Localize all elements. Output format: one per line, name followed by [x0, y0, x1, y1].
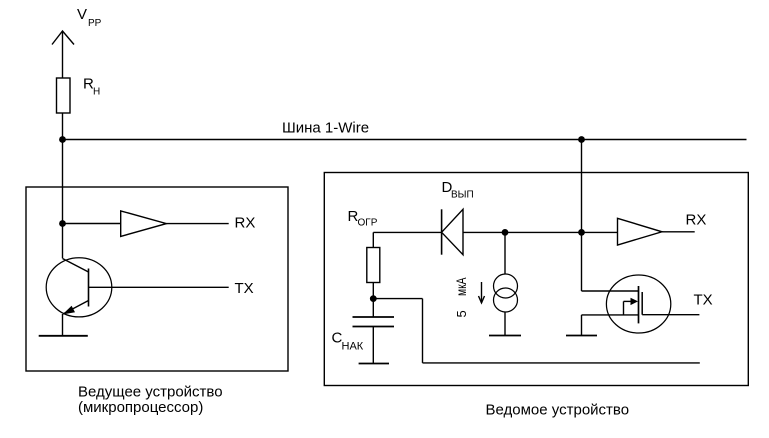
capacitor C_NAK top plate [353, 316, 395, 318]
mosfet M1 channel bar [638, 286, 640, 323]
label R_OGR [348, 208, 378, 229]
svg-text:Ведомое устройство: Ведомое устройство [486, 402, 630, 419]
wire current source to ground [504, 312, 506, 336]
label C_NAK [332, 330, 364, 353]
buffer U1 master RX [121, 211, 167, 237]
wire bus drop into slave [581, 140, 583, 233]
power arrow to VPP [52, 31, 74, 78]
box slave device [324, 173, 748, 386]
wire R_OGR to diode [373, 231, 441, 233]
wire TX base master [89, 286, 229, 288]
transistor Q1 emitter lead [63, 301, 89, 315]
node bus junction left [59, 136, 66, 143]
node bus junction right [578, 136, 585, 143]
node VPP label [77, 6, 102, 29]
label 5 uA (rotated) [453, 277, 469, 317]
svg-text:Шина 1-Wire: Шина 1-Wire [282, 119, 369, 136]
caption master device [78, 384, 223, 417]
svg-text:RX: RX [686, 212, 707, 229]
mosfet M1 source lead [582, 314, 639, 316]
svg-text:Ведущее устройство: Ведущее устройство [78, 384, 223, 401]
node bus drop tap [578, 229, 585, 236]
buffer U2 slave RX [618, 218, 663, 245]
label R_H [83, 76, 100, 98]
current direction arrow [479, 282, 485, 303]
svg-text:ОГР: ОГР [358, 218, 378, 229]
svg-text:(микропроцессор): (микропроцессор) [78, 399, 203, 416]
wire bus 1-Wire [63, 139, 747, 141]
mosfet M1 body arrow [624, 298, 639, 315]
diode D_VYP cathode bar [441, 209, 443, 254]
wire source to ground [581, 315, 583, 336]
mosfet M1 drain lead [582, 290, 639, 292]
wire R_H bottom to bus [62, 113, 64, 140]
svg-text:TX: TX [694, 292, 713, 309]
svg-text:PP: PP [88, 18, 102, 29]
ground capacitor [359, 363, 389, 365]
wire RX out slave [662, 231, 695, 233]
transistor Q1 circle [46, 258, 112, 317]
resistor R_OGR [367, 248, 380, 283]
transistor Q1 collector lead [63, 259, 89, 273]
svg-text:мкА: мкА [453, 277, 469, 296]
label D_VYP [442, 179, 474, 201]
node current source tap [502, 229, 509, 236]
wire to RX buffer master [63, 223, 121, 225]
mosfet M1 circle [606, 275, 670, 333]
svg-text:RX: RX [235, 215, 256, 232]
wire bus down into master [62, 140, 64, 224]
node RX tap master [59, 220, 66, 227]
node R_OGR / C_NAK junction [370, 295, 377, 302]
transistor Q1 base bar [88, 269, 90, 307]
box master device [26, 187, 288, 371]
svg-text:Н: Н [93, 87, 100, 98]
ground current source [489, 335, 521, 337]
resistor R_H [57, 78, 71, 113]
wire R_OGR top lead [372, 232, 374, 247]
svg-text:TX: TX [235, 280, 254, 297]
svg-text:V: V [77, 6, 87, 23]
wire RX out master [166, 223, 228, 225]
wire to current source [504, 232, 506, 274]
current source I1 [494, 274, 518, 312]
wire junction to bottom rail [373, 299, 700, 363]
svg-text:НАК: НАК [342, 341, 364, 353]
transistor Q1 emitter arrow [63, 306, 76, 315]
svg-text:ВЫП: ВЫП [451, 190, 474, 201]
diode D_VYP triangle [442, 209, 463, 254]
wire bus drop to mosfet drain [581, 232, 583, 291]
capacitor C_NAK bottom plate [353, 326, 395, 328]
wire collector from node [62, 224, 64, 259]
mosfet M1 gate bar [641, 292, 643, 315]
ground mosfet [566, 335, 597, 337]
ground master [39, 335, 88, 337]
svg-text:5: 5 [454, 310, 469, 317]
wire emitter to ground [62, 314, 64, 336]
wire gate lead TX [642, 314, 699, 316]
wire diode to RX buffer slave [463, 231, 618, 233]
wire R_OGR bottom to capacitor [372, 283, 374, 318]
wire capacitor bottom [372, 327, 374, 364]
